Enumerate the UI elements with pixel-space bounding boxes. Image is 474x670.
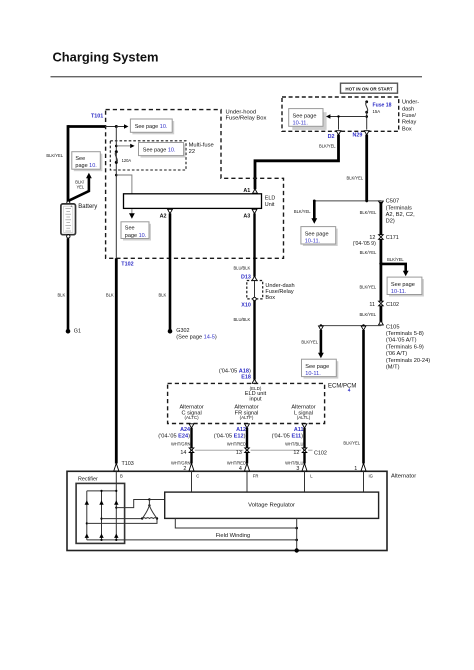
svg-text:WHT/BLU: WHT/BLU: [285, 441, 303, 446]
diode D5: [99, 534, 103, 538]
terminal fork IG: [361, 463, 366, 471]
svg-text:WHT/BLU: WHT/BLU: [285, 461, 303, 466]
svg-text:YEL: YEL: [76, 184, 84, 189]
pin A24/E24: [158, 424, 194, 440]
svg-text:Box: Box: [402, 126, 412, 132]
svg-text:120A: 120A: [122, 158, 132, 163]
ELD unit bar: [124, 194, 276, 209]
svg-text:(Terminals 20-24): (Terminals 20-24): [386, 358, 430, 364]
pin A12/E12: [214, 424, 250, 440]
svg-text:(M/T): (M/T): [386, 365, 400, 371]
svg-text:10-11.: 10-11.: [305, 371, 321, 377]
svg-text:('06 A/T): ('06 A/T): [386, 351, 407, 357]
junction at T101 bus: [115, 125, 118, 128]
svg-text:BLK: BLK: [159, 293, 167, 298]
ground G1: [66, 329, 81, 335]
svg-text:BLK/YEL: BLK/YEL: [360, 210, 377, 215]
svg-text:Multi-fuse: Multi-fuse: [189, 142, 214, 148]
connector C102 bowtie pin 12: [293, 448, 306, 456]
wire A2 to G302: [169, 213, 172, 329]
svg-text:11: 11: [369, 302, 375, 308]
svg-text:E18: E18: [241, 375, 251, 381]
see-page box 3: [121, 222, 151, 241]
svg-text:15A: 15A: [373, 109, 381, 114]
terminal fork L: [302, 463, 307, 471]
arrow to see-page box 1: [116, 124, 128, 128]
svg-text:('04-'05 9): ('04-'05 9): [353, 241, 376, 247]
svg-text:See page: See page: [305, 231, 329, 237]
svg-text:C171: C171: [386, 235, 399, 241]
wire through small box: [254, 281, 256, 298]
wire FR signal: [246, 428, 248, 464]
rectifier bottom rail / field winding return: [87, 539, 297, 541]
rectifier column 1: [86, 491, 88, 540]
wire battery negative to G1: [67, 238, 70, 329]
see-page box 0 (left of battery): [72, 152, 103, 172]
wire D2 to ELD A1: [255, 135, 339, 190]
svg-text:Box: Box: [265, 295, 275, 301]
voltage regulator box: [165, 492, 379, 518]
under-dash fuse/relay box (top): [282, 97, 419, 132]
svg-text:14: 14: [180, 450, 186, 456]
connector C102 bowtie pin 13: [236, 448, 249, 456]
svg-text:10-11.: 10-11.: [391, 289, 407, 295]
pin A3: [243, 209, 257, 219]
svg-text:(ALTF): (ALTF): [240, 415, 254, 420]
connector C105 line: [320, 324, 431, 370]
svg-text:See page: See page: [293, 113, 317, 119]
connector C171 bowtie: [353, 235, 399, 247]
svg-text:BLK/YEL: BLK/YEL: [46, 153, 63, 158]
diode D6: [114, 534, 118, 538]
fuse 120A: [115, 150, 132, 164]
terminal fork above C105 line: [379, 321, 384, 325]
svg-text:4: 4: [348, 388, 351, 394]
svg-text:BLK/YEL: BLK/YEL: [301, 340, 318, 345]
pin A2: [160, 209, 173, 219]
junction tap for see-page 3: [115, 174, 118, 177]
wire X10 to ECM E18: [253, 301, 255, 380]
svg-text:page 10.: page 10.: [125, 233, 147, 239]
arrow to see-page (C105 left branch): [301, 330, 323, 358]
svg-text:('04-'05 E12): ('04-'05 E12): [214, 433, 246, 439]
junction case ground: [295, 548, 299, 552]
svg-text:13: 13: [236, 450, 242, 456]
svg-text:BLK: BLK: [106, 293, 114, 298]
see-page box (below C507 junction): [301, 227, 338, 246]
see-page box 1: [130, 119, 174, 134]
ECM/PCM U1 dashed box: [168, 383, 357, 423]
terminal fork at C507 right: [379, 201, 384, 205]
svg-text:BLK/YEL: BLK/YEL: [359, 312, 376, 317]
svg-text:10-11.: 10-11.: [305, 238, 321, 244]
under-dash fuse/relay box (small, D13/X10): [247, 281, 295, 301]
connector C102 bowtie pin 14: [180, 448, 193, 456]
svg-text:See: See: [75, 156, 85, 162]
wire IG down to alternator: [362, 330, 365, 464]
junction D2 tap: [337, 115, 339, 117]
diode D4: [85, 534, 89, 538]
svg-text:WHT/GRN: WHT/GRN: [171, 441, 191, 446]
terminal fork B: [114, 463, 119, 471]
junction field wire: [295, 527, 298, 530]
svg-text:C507: C507: [386, 199, 400, 205]
battery BAT1: [61, 201, 97, 238]
field winding label: [214, 531, 254, 539]
wire C507 to C171: [379, 202, 382, 235]
svg-text:See: See: [125, 226, 135, 232]
svg-text:C: C: [196, 474, 199, 479]
pin A18/E18 labels: [219, 368, 251, 380]
svg-text:T103: T103: [122, 461, 134, 467]
terminal X10 circle: [253, 297, 256, 300]
stator phase tap 2: [100, 518, 142, 520]
see-page box (below C105): [302, 359, 339, 378]
svg-text:BLK: BLK: [57, 293, 65, 298]
svg-text:BLK/YEL: BLK/YEL: [343, 441, 360, 446]
svg-text:FR: FR: [253, 474, 259, 479]
diode D1: [85, 500, 89, 504]
stator delta winding: [141, 498, 158, 519]
svg-text:('04-'05 E11): ('04-'05 E11): [272, 433, 304, 439]
svg-text:BLK/YEL: BLK/YEL: [319, 144, 336, 149]
svg-text:10-11.: 10-11.: [293, 120, 309, 126]
svg-text:X10: X10: [241, 303, 251, 309]
svg-text:page 10.: page 10.: [75, 163, 97, 169]
rectifier box: [76, 477, 125, 544]
junction dots rectifier rails: [100, 490, 117, 541]
svg-text:WHT/RED: WHT/RED: [227, 441, 246, 446]
svg-text:T102: T102: [121, 262, 133, 268]
svg-text:D2): D2): [386, 219, 395, 225]
svg-text:Alternator: Alternator: [391, 473, 416, 479]
svg-text:BLK/YEL: BLK/YEL: [346, 175, 363, 180]
junction tap for see-page 2: [115, 145, 118, 148]
svg-text:12: 12: [293, 450, 299, 456]
wire junction to see-page arrow: [326, 114, 367, 118]
svg-text:A3: A3: [243, 214, 250, 220]
rectifier column 2: [101, 491, 103, 540]
svg-text:A24: A24: [180, 427, 190, 433]
wire battery positive riser: [67, 125, 70, 201]
wire D2 drop inside box: [338, 117, 340, 130]
stator phase tap 3: [86, 519, 157, 525]
arrow to see-page box 2: [116, 144, 134, 148]
svg-text:Under-: Under-: [402, 100, 419, 106]
connector C102 line (gray): [195, 449, 313, 451]
svg-text:(ALTC): (ALTC): [185, 415, 200, 420]
svg-text:BLK/YEL: BLK/YEL: [387, 257, 404, 262]
svg-text:dash: dash: [402, 106, 414, 112]
wire C171 to junction: [379, 239, 382, 301]
wire B into rectifier: [115, 471, 117, 491]
svg-text:Field Winding: Field Winding: [216, 533, 250, 539]
svg-text:BLK/YEL: BLK/YEL: [294, 209, 311, 214]
svg-text:C102: C102: [386, 302, 399, 308]
junction branch to see-page: [379, 262, 382, 265]
wire T102 to alternator B: [115, 258, 118, 463]
svg-text:Charging System: Charging System: [53, 49, 159, 64]
see-page box (right, N29 branch): [387, 277, 424, 296]
wire battery feed bus (horizontal): [68, 125, 105, 128]
arrow branch right to see-page: [381, 257, 409, 276]
wire IG into regulator: [363, 471, 365, 492]
under-hood fuse/relay box (stepped dashed outline): [106, 110, 284, 259]
alternator box: [67, 471, 416, 550]
svg-text:A2, B2, C2,: A2, B2, C2,: [386, 212, 416, 218]
arrow to see-page (C507 left): [294, 201, 317, 224]
svg-text:G302: G302: [176, 328, 189, 334]
svg-text:See page: See page: [391, 282, 415, 288]
svg-text:A11: A11: [294, 427, 304, 433]
terminal D2 fork: [336, 131, 341, 135]
arrow battery to see-page 0: [69, 173, 92, 201]
junction on fuse wire: [365, 115, 368, 118]
svg-text:ELD: ELD: [265, 196, 276, 202]
svg-text:22: 22: [189, 149, 195, 155]
wire regulator to field winding: [175, 518, 296, 528]
svg-text:A12: A12: [236, 427, 246, 433]
svg-text:('04-'05 E24): ('04-'05 E24): [158, 433, 190, 439]
svg-text:C102: C102: [314, 451, 327, 457]
terminal fork E18: [252, 379, 257, 383]
junction field return: [295, 539, 298, 542]
wire C into regulator: [191, 471, 193, 492]
svg-text:WHT/RED: WHT/RED: [227, 461, 246, 466]
svg-text:BLU/BLK: BLU/BLK: [233, 265, 250, 270]
pin A1: [243, 188, 257, 194]
diode D3: [114, 500, 118, 504]
svg-text:(Terminals 6-9): (Terminals 6-9): [386, 344, 424, 350]
svg-text:('04-'05 A18): ('04-'05 A18): [219, 368, 251, 374]
svg-text:T101: T101: [91, 114, 103, 120]
wire A3 to D13: [253, 213, 255, 276]
svg-text:See page: See page: [305, 364, 329, 370]
ground G302: [168, 328, 217, 340]
svg-text:BLK/YEL: BLK/YEL: [359, 285, 376, 290]
terminal fork FR: [245, 463, 250, 471]
rectifier top rail: [87, 490, 117, 492]
wire fuse to junction: [366, 112, 368, 129]
svg-text:See page 10.: See page 10.: [135, 124, 168, 130]
svg-text:Fuse 18: Fuse 18: [373, 103, 392, 109]
svg-text:(ELD): (ELD): [250, 386, 262, 391]
svg-text:Fuse/: Fuse/: [402, 113, 416, 119]
svg-text:D2: D2: [328, 134, 335, 140]
arrow to see-page box 3: [116, 175, 135, 219]
hot-in-on-or-start box: [341, 83, 398, 93]
svg-text:D13: D13: [241, 274, 251, 280]
svg-text:C105: C105: [386, 324, 400, 330]
svg-text:IG: IG: [369, 474, 373, 479]
terminal fork D13: [252, 276, 257, 280]
svg-text:B: B: [120, 474, 123, 479]
connector C507 line: [313, 199, 415, 225]
wire delta sense to regulator: [149, 499, 164, 501]
svg-text:+: +: [70, 205, 72, 209]
terminal N29 fork: [364, 131, 369, 135]
svg-text:('04-'05 A/T): ('04-'05 A/T): [386, 338, 417, 344]
wire C signal: [190, 428, 192, 464]
svg-text:Fuse/Relay Box: Fuse/Relay Box: [226, 115, 267, 121]
svg-text:Unit: Unit: [265, 202, 275, 208]
svg-text:BLU/BLK: BLU/BLK: [233, 317, 250, 322]
wire C102 to C105: [379, 306, 382, 326]
terminal fork below C105 left: [319, 326, 324, 330]
multi-fuse 22 dashed box: [110, 141, 213, 170]
svg-text:input: input: [249, 397, 262, 403]
svg-text:Rectifier: Rectifier: [78, 477, 98, 483]
svg-text:Voltage Regulator: Voltage Regulator: [248, 502, 295, 508]
pin A11/E11: [272, 424, 307, 440]
svg-text:A1: A1: [243, 188, 250, 194]
diode D2: [99, 500, 103, 504]
svg-text:ECM/PCM: ECM/PCM: [328, 384, 356, 390]
wire FR into regulator: [246, 471, 248, 492]
terminal fork below C105 mid: [361, 326, 366, 330]
stator phase tap 1 (top): [115, 500, 149, 509]
svg-text:Relay: Relay: [402, 120, 417, 126]
svg-text:(See page 14-5): (See page 14-5): [176, 335, 217, 341]
svg-text:G1: G1: [74, 329, 81, 335]
wire regulator ground drop: [296, 518, 298, 550]
svg-text:A2: A2: [160, 214, 167, 220]
svg-text:See page 10.: See page 10.: [143, 147, 176, 153]
svg-text:(ALTL): (ALTL): [297, 415, 311, 420]
wire N29 down to C507: [365, 135, 368, 201]
svg-text:WHT/GRN: WHT/GRN: [171, 461, 191, 466]
wire main feed inside under-hood box: [115, 127, 117, 259]
svg-text:HOT IN ON OR START: HOT IN ON OR START: [345, 86, 392, 91]
see-page box 2: [139, 143, 186, 158]
see-page box (in under-dash box): [289, 109, 327, 130]
svg-text:N29: N29: [353, 133, 363, 139]
title rule: [51, 76, 423, 77]
terminal fork C: [189, 463, 194, 471]
rectifier column 3: [115, 491, 117, 540]
svg-text:BLK/YEL: BLK/YEL: [360, 250, 377, 255]
svg-text:Battery: Battery: [78, 204, 97, 210]
wire L signal: [303, 428, 305, 464]
connector C102 bowtie (pin 11): [369, 301, 399, 308]
svg-text:(Terminals: (Terminals: [386, 205, 412, 211]
fuse F18 (Fuse 18 15A): [365, 100, 391, 114]
svg-text:(Terminals 5-8): (Terminals 5-8): [386, 331, 424, 337]
wire L into regulator: [304, 471, 306, 492]
